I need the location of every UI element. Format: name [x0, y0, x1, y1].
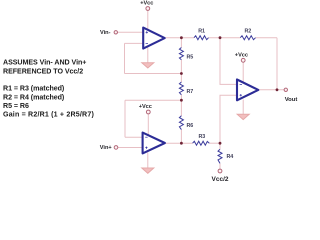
wire node F to R4 top	[219, 143, 221, 149]
wire node D to R6 top	[180, 100, 182, 116]
svg-text:R7: R7	[187, 89, 194, 95]
resistor R3	[193, 141, 210, 145]
op-amp U1	[143, 28, 165, 49]
U3 +in mark	[240, 94, 242, 96]
wire R7 bottom to node D	[180, 95, 182, 100]
wire right rail down to Vout node	[276, 38, 278, 90]
wire R2 right to corner	[256, 37, 278, 39]
wire U2 feedback vertical	[124, 100, 126, 137]
terminal Vout	[284, 88, 287, 91]
svg-text:R1: R1	[198, 29, 205, 35]
ground U2	[142, 168, 154, 173]
wire R6 bottom to node E	[180, 130, 182, 144]
op-amp U2	[143, 133, 165, 154]
svg-text:R2: R2	[245, 29, 252, 35]
wire U2 ground stem	[147, 153, 149, 169]
svg-text:Vcc/2: Vcc/2	[212, 176, 229, 183]
resistor R2	[240, 36, 255, 40]
junction node E (U2 out / R6)	[180, 142, 183, 145]
wire U1 ground stem	[147, 48, 149, 63]
U2 -in mark	[145, 136, 147, 138]
junction node D (R7/R6, U2 fb)	[180, 99, 183, 102]
resistor R5	[179, 48, 183, 60]
svg-text:Gain = R2/R1 (1 + 2R5/R7): Gain = R2/R1 (1 + 2R5/R7)	[3, 110, 94, 118]
svg-text:Vin+: Vin+	[100, 145, 113, 151]
svg-text:R5: R5	[187, 55, 194, 61]
resistor R7	[179, 82, 183, 95]
terminal Vin+	[114, 146, 118, 150]
svg-text:Vin-: Vin-	[100, 30, 111, 36]
wire node F up to U3 +in	[220, 95, 238, 143]
svg-text:R2 = R4 (matched): R2 = R4 (matched)	[3, 93, 65, 101]
terminal +Vcc U1	[146, 7, 150, 11]
op-amp U3	[237, 80, 258, 101]
U1 +in mark	[146, 31, 148, 33]
wire U1 feedback vertical	[124, 43, 126, 73]
wire U2 -in feedback left	[125, 136, 143, 138]
wire Vin- to U1 +in	[118, 31, 145, 33]
wire R4 bottom to Vcc/2 terminal	[219, 164, 221, 170]
U1 -in mark	[146, 42, 148, 44]
junction node Vout	[276, 88, 279, 91]
resistor R1	[194, 36, 209, 40]
wire +Vcc stem U1	[147, 10, 149, 30]
svg-text:ASSUMES Vin- AND Vin+: ASSUMES Vin- AND Vin+	[3, 58, 86, 66]
wire R3 to node F	[209, 142, 220, 144]
wire node A down to R5 top	[180, 38, 182, 48]
wire U1 -in feedback left	[125, 42, 145, 44]
svg-text:+Vcc: +Vcc	[140, 0, 153, 6]
wire +Vcc stem U2	[147, 114, 149, 135]
wire node C to R7 top	[180, 74, 182, 83]
svg-text:R3: R3	[199, 134, 206, 140]
wire U1 output to node A	[165, 37, 195, 39]
terminal +Vcc U2	[146, 110, 150, 114]
junction node C (R5/R7, U1 fb)	[180, 72, 183, 75]
ground U1	[142, 63, 154, 68]
terminal Vin-	[114, 31, 117, 34]
svg-text:R6: R6	[187, 123, 194, 129]
terminal Vcc/2	[218, 169, 222, 173]
svg-text:+Vcc: +Vcc	[139, 104, 152, 110]
resistor R6	[179, 116, 183, 130]
wire R5 bottom to node C	[180, 60, 182, 74]
wire U2 output to node E	[165, 142, 193, 144]
junction node A (U1 out / R5)	[180, 36, 183, 39]
wire U3 ground stem	[242, 100, 244, 115]
wire Vin+ to U2 +in	[118, 147, 144, 149]
svg-text:+Vcc: +Vcc	[235, 52, 248, 58]
wire +Vcc stem U3	[242, 62, 244, 82]
svg-text:R5 = R6: R5 = R6	[3, 102, 29, 110]
svg-text:Vout: Vout	[285, 97, 298, 103]
resistor R4	[218, 149, 222, 163]
wire U3 output to Vout	[259, 89, 284, 91]
wire U1 feedback bottom to R5/R7 node	[125, 73, 182, 75]
note text block	[3, 58, 94, 118]
svg-text:R4: R4	[227, 154, 234, 160]
U3 -in mark	[240, 83, 242, 85]
junction node B (R1/R2)	[219, 36, 222, 39]
svg-text:REFERENCED TO Vcc/2: REFERENCED TO Vcc/2	[3, 67, 83, 75]
terminal +Vcc U3	[241, 58, 245, 62]
U2 +in mark	[145, 147, 147, 149]
wire R1 to R2 through node B	[209, 37, 241, 39]
svg-text:R1 = R3 (matched): R1 = R3 (matched)	[3, 84, 65, 92]
wire node B down to U3 -in	[220, 38, 238, 85]
wire U2 feedback top to node D	[125, 99, 181, 101]
ground U3	[237, 114, 249, 119]
junction node F (R3/R4)	[219, 142, 222, 145]
